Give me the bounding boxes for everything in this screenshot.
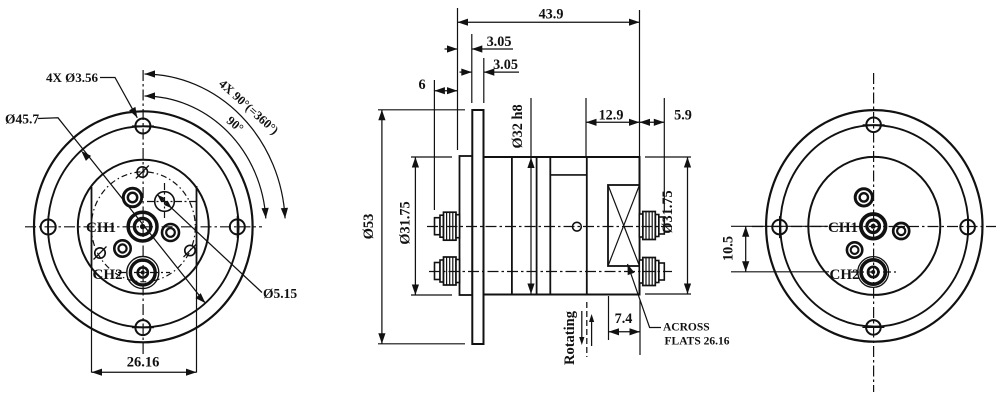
- rear connector CH1: [861, 214, 886, 239]
- dim Ø31.75 right: [645, 156, 691, 158]
- angular arc 90: [145, 96, 266, 218]
- mounting hole top: [135, 119, 150, 134]
- rear CH2 tick: [851, 271, 898, 273]
- rear mounting hole left: [772, 220, 787, 235]
- rotor joint line: [586, 157, 588, 295]
- screw bolt circle dashed: [91, 172, 195, 282]
- svg-text:CH1: CH1: [86, 220, 116, 236]
- dim 3.05 second: [483, 58, 485, 103]
- side view horizontal centerline CH1: [427, 226, 674, 228]
- leader Ø5.15: [157, 195, 262, 293]
- set screw: [573, 222, 582, 231]
- svg-text:7.4: 7.4: [615, 311, 633, 327]
- rotation arrow up: [591, 321, 593, 346]
- rear view bolt circle: [780, 125, 968, 326]
- aux connector right: [162, 224, 179, 241]
- dimension 26.16: [91, 268, 93, 373]
- svg-text:5.9: 5.9: [674, 108, 692, 124]
- svg-text:CH2: CH2: [830, 267, 860, 283]
- rear mounting hole top: [866, 118, 881, 133]
- connector CH1 right side: [659, 217, 665, 234]
- svg-text:ACROSS: ACROSS: [663, 322, 710, 334]
- section line 2: [536, 157, 538, 295]
- mounting hole bottom: [135, 320, 150, 335]
- dim 7.4: [608, 296, 610, 340]
- left flat chord: [91, 187, 93, 268]
- rotation arrow down: [581, 311, 583, 338]
- leader across flats: [628, 264, 662, 328]
- rear connector CH2: [861, 260, 885, 284]
- CH2 horizontal tick: [118, 272, 170, 274]
- front view outer flange circle: [34, 111, 253, 342]
- mounting flange plate: [472, 110, 483, 344]
- dim 5.9: [663, 98, 665, 212]
- connector CH2 front: [130, 260, 155, 285]
- svg-text:Ø45.7: Ø45.7: [5, 112, 39, 127]
- stator cap: [460, 156, 473, 295]
- screw hole lower-right: [185, 245, 195, 255]
- svg-text:3.05: 3.05: [487, 34, 512, 50]
- dim 12.9: [585, 98, 587, 157]
- dim Ø32 h8: [530, 98, 532, 294]
- side view horizontal centerline CH2: [429, 271, 672, 273]
- svg-text:Ø32 h8: Ø32 h8: [510, 104, 526, 148]
- rear mounting hole bottom: [866, 320, 881, 335]
- dim Ø53: [378, 109, 465, 111]
- front view bolt circle: [48, 126, 239, 327]
- rear view horizontal centerline: [752, 226, 996, 228]
- svg-text:3.05: 3.05: [493, 57, 518, 73]
- rear aux connector top: [855, 189, 872, 206]
- svg-text:Rotating: Rotating: [562, 310, 578, 365]
- rear mounting hole right: [960, 220, 975, 235]
- front view inner face circle: [78, 160, 209, 294]
- connector CH1 front: [128, 212, 157, 241]
- connector CH2 right side: [659, 263, 665, 280]
- rear view vertical centerline: [873, 73, 875, 392]
- svg-text:Ø53: Ø53: [361, 214, 377, 240]
- screw hole lower-left: [95, 248, 105, 258]
- rear aux connector right: [893, 223, 909, 239]
- dim 6: [433, 80, 435, 210]
- dim 43.9: [457, 8, 459, 150]
- mounting hole left: [41, 220, 56, 235]
- connector CH1 left side: [435, 218, 441, 235]
- front view vertical centerline: [142, 70, 144, 356]
- section line 3: [549, 157, 551, 295]
- svg-text:CH2: CH2: [93, 267, 123, 283]
- svg-text:4X Ø3.56: 4X Ø3.56: [46, 70, 99, 85]
- svg-text:Ø31.75: Ø31.75: [660, 190, 676, 233]
- rear view outer flange circle: [766, 110, 982, 342]
- svg-text:CH1: CH1: [828, 220, 858, 236]
- dim 10.5: [731, 225, 828, 227]
- rear inner face circle: [808, 157, 940, 295]
- svg-text:12.9: 12.9: [599, 108, 624, 124]
- svg-text:FLATS 26.16: FLATS 26.16: [665, 335, 730, 347]
- right flat chord: [196, 186, 198, 268]
- hex flats box: [608, 185, 640, 266]
- leader 4X Ø3.56: [100, 78, 137, 118]
- svg-text:26.16: 26.16: [127, 355, 160, 371]
- aux connector upper-left: [123, 188, 141, 206]
- mounting hole right: [230, 219, 245, 234]
- diameter leader Ø45.7 line: [38, 118, 205, 303]
- svg-text:Ø31.75: Ø31.75: [398, 201, 414, 244]
- body cylinder: [484, 157, 640, 295]
- svg-text:Ø5.15: Ø5.15: [263, 286, 297, 301]
- dim Ø31.75 left: [411, 156, 452, 158]
- step line: [550, 174, 587, 176]
- hidden hole Ø5.15: [155, 192, 175, 212]
- rear aux connector lower-left: [847, 242, 862, 257]
- front view horizontal centerline: [25, 226, 262, 228]
- svg-text:43.9: 43.9: [539, 7, 564, 23]
- aux connector lower-left: [114, 240, 130, 256]
- rotation axis dashed line: [586, 302, 588, 357]
- dim 3.05 first: [471, 34, 473, 103]
- screw hole top: [137, 167, 147, 177]
- svg-text:10.5: 10.5: [721, 236, 737, 261]
- connector CH2 left side: [435, 263, 441, 280]
- svg-text:6: 6: [418, 77, 425, 93]
- angular arc 4X 90: [145, 74, 286, 218]
- section line 1: [511, 157, 513, 295]
